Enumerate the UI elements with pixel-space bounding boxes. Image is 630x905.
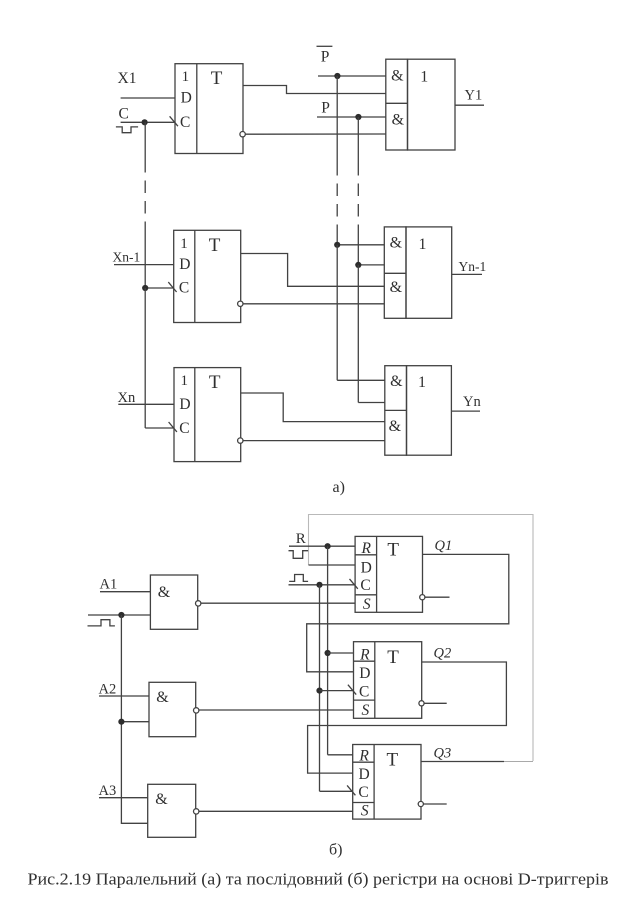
bus P-bar vertical row1-row2 (dashed continuation): [336, 76, 338, 245]
node P-bar junction row1: [334, 73, 340, 79]
AND gate DD7.1: [150, 575, 197, 629]
bus R vertical: [327, 546, 329, 755]
svg-text:&: &: [155, 791, 168, 808]
wire FF2b Qn stub: [424, 702, 447, 704]
svg-text:&: &: [392, 111, 405, 128]
wire A2 input: [99, 695, 149, 697]
svg-text:Y1: Y1: [465, 87, 483, 103]
D flip-flop DD8 (T) section b: [355, 536, 422, 612]
gate block DD4 row2 (2 AND + OR): [384, 227, 451, 318]
wire output Yn-1: [452, 273, 482, 275]
wire Q3 output: [421, 761, 504, 763]
wire Q2 feedback to FF3b D: [308, 662, 507, 773]
inverted output circle AND2b: [194, 708, 199, 713]
wire R input FF2b: [328, 652, 354, 654]
svg-text:T: T: [209, 235, 221, 256]
feedback frame wire Q3 to D1 (light): [309, 515, 534, 762]
svg-text:T: T: [209, 372, 221, 393]
svg-text:A2: A2: [99, 681, 117, 697]
svg-text:C: C: [358, 784, 368, 801]
svg-text:1: 1: [180, 236, 188, 252]
bus C vertical row2-row3: [144, 288, 146, 428]
bus P vertical row1-row2 (dashed continuation): [357, 117, 359, 265]
svg-text:R: R: [360, 540, 371, 557]
svg-text:&: &: [158, 584, 171, 601]
bus C vertical row1-row2 (dashed continuation): [144, 122, 146, 288]
svg-text:C: C: [179, 420, 189, 437]
svg-text:D: D: [181, 90, 192, 107]
wire Xn-1 to FF2 D: [114, 264, 174, 266]
wire C input row3: [145, 427, 174, 429]
wire Q3 gray tail: [503, 761, 533, 763]
dynamic input marker FF3b C: [347, 785, 355, 795]
wire A3 input: [99, 797, 148, 799]
wire Q1 feedback to FF2b D: [307, 554, 509, 671]
svg-text:Yn-1: Yn-1: [459, 259, 487, 274]
svg-text:T: T: [386, 750, 398, 771]
inverted output circle FF1b: [420, 595, 425, 600]
svg-text:Q1: Q1: [435, 538, 453, 554]
reset pulse symbol (negative): [289, 551, 309, 559]
clock pulse symbol (negative) row1: [116, 127, 138, 133]
inverted output circle FF3: [238, 438, 243, 443]
bus C vertical: [319, 585, 321, 792]
wire P: [317, 116, 386, 118]
svg-text:1: 1: [420, 69, 428, 86]
wire A1 input: [100, 591, 150, 593]
wire AND2b out to FF2b S: [199, 709, 354, 711]
svg-text:&: &: [391, 67, 404, 84]
wire C input FF3b: [320, 790, 353, 792]
svg-text:T: T: [211, 68, 223, 89]
inverted output circle AND1b: [196, 601, 201, 606]
gate block DD6 row3 (2 AND + OR): [385, 366, 452, 456]
dynamic input marker FF1b C: [350, 579, 358, 589]
svg-text:C: C: [119, 106, 129, 123]
inverted output circle AND3b: [194, 809, 199, 814]
wire FF2 Q to AND: [241, 254, 385, 287]
svg-text:&: &: [390, 279, 403, 296]
D flip-flop DD5 (T): [174, 368, 241, 462]
wire FF1b Qn stub: [425, 596, 450, 598]
wire FF2 Qn to AND: [243, 303, 384, 305]
wire clock input AND1b: [88, 614, 150, 616]
wire P to AND row3: [358, 402, 385, 404]
node A clock junction 2: [118, 719, 124, 725]
svg-text:S: S: [361, 803, 369, 820]
svg-text:&: &: [156, 689, 169, 706]
svg-text:а): а): [333, 479, 345, 496]
wire output Yn: [451, 410, 480, 412]
dynamic input marker FF2 C: [168, 282, 176, 292]
svg-text:P: P: [321, 100, 330, 117]
dynamic input marker FF2b C: [348, 685, 356, 695]
dynamic input marker FF3 C: [169, 422, 177, 432]
svg-text:Xn: Xn: [118, 390, 136, 406]
svg-text:Q3: Q3: [434, 746, 452, 762]
svg-text:б): б): [329, 842, 342, 859]
svg-text:D: D: [361, 559, 372, 576]
gate block DD2 row1 (2 AND + OR): [386, 59, 455, 150]
clock pulse symbol (positive) section b: [289, 575, 308, 582]
svg-text:1: 1: [419, 236, 427, 253]
wire clock input AND2b: [121, 721, 149, 723]
node C junction row1: [142, 119, 148, 125]
node C junction FF2b: [316, 688, 322, 694]
svg-text:1: 1: [182, 69, 190, 85]
svg-text:Xn-1: Xn-1: [113, 250, 141, 265]
inverted output circle FF1: [240, 132, 245, 137]
dynamic input marker FF1 C: [170, 116, 178, 126]
wire C input FF2b: [320, 690, 354, 692]
svg-text:Рис.2.19 Паралельний (а) та по: Рис.2.19 Паралельний (а) та послідовний …: [28, 870, 609, 889]
AND gate DD7.2: [149, 682, 196, 736]
D flip-flop DD10 (T) section b: [353, 745, 421, 820]
node P junction row2: [355, 262, 361, 268]
wire FF3b Qn stub: [423, 803, 446, 805]
wire C input FF1b: [289, 584, 356, 586]
wire C input row1: [121, 121, 175, 123]
svg-text:1: 1: [180, 373, 188, 389]
wire FF3 Qn to AND: [243, 440, 385, 442]
node P junction row1: [355, 114, 361, 120]
node C junction FF1b: [316, 582, 322, 588]
svg-text:T: T: [387, 540, 399, 561]
svg-text:A3: A3: [99, 783, 117, 799]
wire FF1 Qn to AND: [245, 133, 385, 135]
D flip-flop DD3 (T): [174, 230, 241, 322]
svg-text:S: S: [362, 702, 370, 719]
wire P-bar to AND row2: [337, 244, 384, 246]
wire R input FF3b: [328, 754, 353, 756]
wire Xn to FF3 D: [118, 403, 174, 405]
wire P to AND row2: [358, 264, 384, 266]
wire R input: [289, 545, 355, 547]
svg-text:S: S: [363, 596, 371, 613]
net label P-bar: [317, 46, 333, 65]
D flip-flop DD9 (T) section b: [354, 642, 422, 719]
node A clock junction 1: [118, 612, 124, 618]
svg-text:R: R: [358, 747, 369, 764]
node C junction row2: [142, 285, 148, 291]
svg-text:C: C: [179, 280, 189, 297]
wire C input row2: [145, 287, 174, 289]
svg-text:D: D: [179, 396, 190, 413]
svg-text:R: R: [296, 531, 306, 547]
svg-text:R: R: [359, 646, 370, 663]
wire P-bar to AND row3: [337, 379, 385, 381]
svg-text:&: &: [390, 373, 403, 390]
wire FF3 Q to AND: [241, 393, 385, 422]
inverted output circle FF2: [238, 301, 243, 306]
bus P vertical row2-row3: [357, 265, 359, 403]
svg-text:X1: X1: [118, 70, 137, 87]
bus A clock vertical: [121, 615, 147, 823]
svg-text:Yn: Yn: [463, 394, 481, 410]
svg-text:A1: A1: [100, 576, 118, 592]
svg-text:P: P: [321, 49, 330, 66]
D flip-flop DD1 (T): [175, 64, 243, 154]
wire X1 to FF1 D: [121, 97, 175, 99]
bus P-bar vertical row2-row3: [336, 245, 338, 380]
svg-text:D: D: [179, 256, 190, 273]
svg-text:T: T: [387, 647, 399, 668]
inverted output circle FF3b: [418, 801, 423, 806]
wire AND3b out to FF3b S: [199, 810, 353, 812]
node R junction FF2b: [325, 650, 331, 656]
svg-text:C: C: [360, 577, 370, 594]
svg-text:Q2: Q2: [434, 646, 452, 662]
svg-text:D: D: [358, 766, 369, 783]
wire P-bar: [318, 75, 386, 77]
svg-text:&: &: [390, 235, 403, 252]
svg-text:C: C: [359, 683, 369, 700]
inverted output circle FF2b: [419, 701, 424, 706]
wire output Y1: [455, 104, 484, 106]
node P-bar junction row2: [334, 242, 340, 248]
clock pulse symbol AND1b: [88, 620, 115, 626]
AND gate DD7.3: [148, 784, 196, 837]
svg-text:D: D: [359, 665, 370, 682]
wire FF1 Q to AND: [243, 86, 386, 94]
svg-text:1: 1: [418, 374, 426, 391]
node R junction: [325, 543, 331, 549]
svg-text:C: C: [180, 114, 190, 131]
wire D input FF1b (from feedback): [309, 564, 356, 566]
wire AND1b out to FF1b S: [201, 602, 355, 604]
svg-text:&: &: [389, 418, 402, 435]
